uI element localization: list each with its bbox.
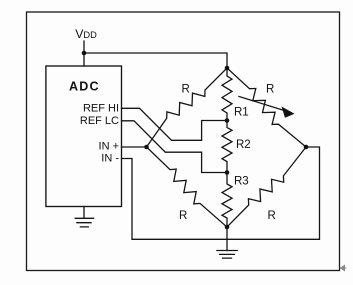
svg-text:R: R	[266, 84, 274, 96]
resistor R bottom-right	[227, 147, 306, 227]
resistor R bottom-left	[147, 147, 228, 227]
wire REF HI to R1/R2 tap	[122, 108, 228, 140]
svg-text:R2: R2	[236, 139, 251, 151]
node top	[225, 66, 230, 71]
node right (IN-)	[304, 145, 309, 150]
resistor R top-right sensor	[227, 68, 306, 147]
ground ADC	[75, 207, 93, 227]
junction VDD	[82, 51, 87, 56]
svg-text:ADC: ADC	[69, 80, 100, 94]
svg-text:R1: R1	[234, 107, 249, 119]
resistor R top-left	[147, 68, 228, 147]
svg-text:R3: R3	[234, 176, 249, 188]
wire IN- to right node	[122, 147, 320, 239]
svg-text:R: R	[268, 210, 276, 222]
resistor R1	[222, 68, 232, 121]
wire REF LC to R2/R3 tap	[122, 121, 228, 173]
ground bridge	[217, 251, 237, 259]
svg-text:REF HI: REF HI	[83, 103, 119, 115]
resistor R2	[222, 121, 232, 173]
svg-text:IN -: IN -	[101, 153, 119, 165]
sensor arrow	[239, 97, 295, 118]
svg-text:R: R	[179, 210, 187, 222]
resistor R3	[222, 173, 232, 228]
wire VDD rail	[84, 41, 227, 68]
node bottom	[225, 225, 230, 230]
ADC block	[46, 66, 122, 207]
wire bridge bottom to ground	[226, 227, 228, 251]
cursor arrow artifact	[341, 265, 347, 270]
svg-text:IN +: IN +	[99, 141, 119, 153]
node tap R1/R2	[225, 118, 230, 123]
svg-text:REF LC: REF LC	[80, 115, 119, 127]
svg-text:R: R	[182, 84, 190, 96]
wire IN+ to left node	[122, 146, 147, 148]
svg-text:VDD: VDD	[75, 27, 97, 41]
node tap R2/R3	[225, 170, 230, 175]
node left (IN+)	[144, 145, 149, 150]
